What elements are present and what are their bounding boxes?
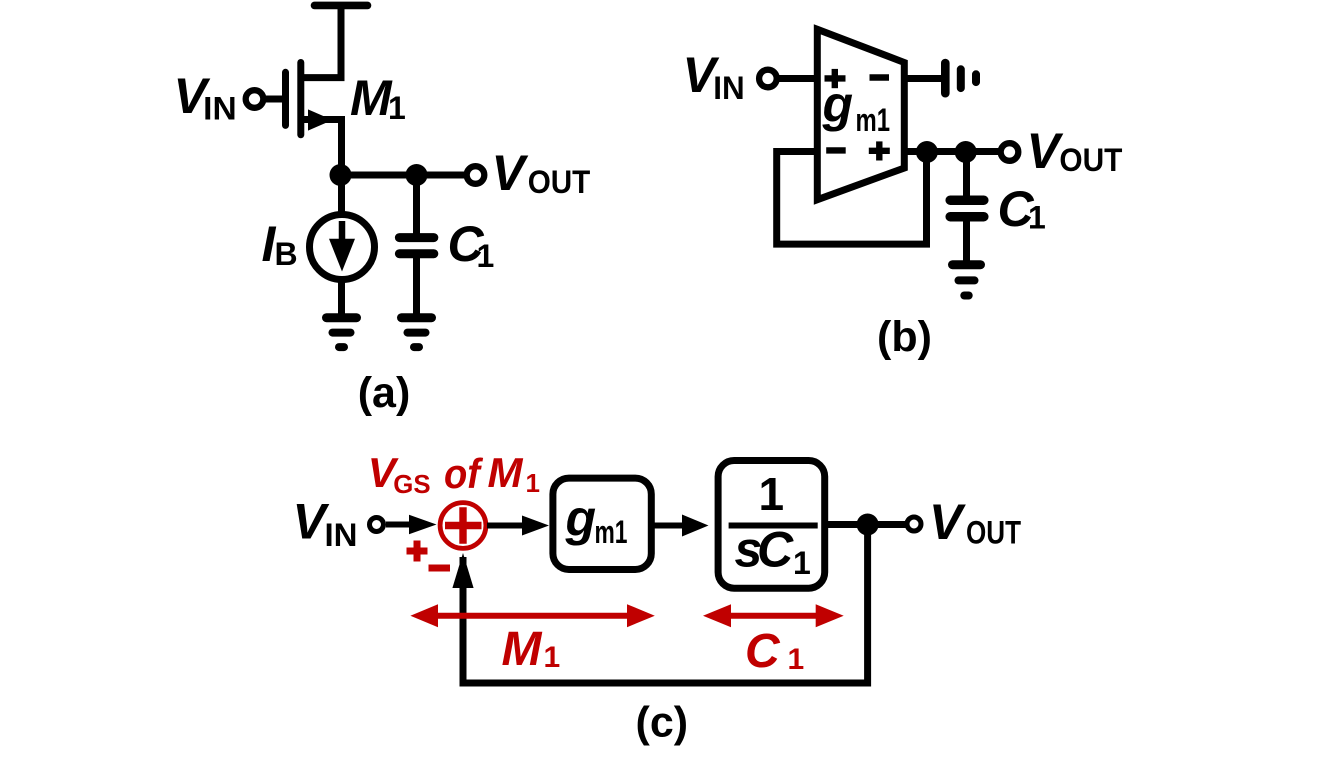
svg-text:M: M [350, 70, 393, 126]
wire node to cap (b) [963, 152, 970, 196]
node dot output gm [916, 141, 938, 163]
arrow gm1 to integrator [651, 523, 684, 529]
arrow summer to gm1 [487, 523, 524, 529]
node dot cap [406, 164, 428, 186]
svg-text:OUT: OUT [1059, 142, 1122, 178]
current source IB arrow [339, 221, 346, 241]
wire gm top output to supply [904, 75, 941, 82]
feedback wire loop (b) [777, 152, 927, 245]
terminal VOUT (a) [467, 166, 485, 184]
wire gm output row [904, 148, 1001, 155]
svg-text:1: 1 [544, 641, 561, 674]
svg-text:1: 1 [793, 545, 811, 581]
svg-text:1: 1 [788, 643, 805, 676]
wire node to capacitor C1 [413, 175, 420, 234]
supply symbol (b) [945, 63, 976, 93]
svg-text:IN: IN [325, 517, 358, 553]
svg-text:(a): (a) [358, 369, 411, 417]
svg-text:1: 1 [759, 468, 785, 520]
red minus sign [429, 565, 451, 572]
wire VIN to gm input [777, 75, 815, 82]
terminal VOUT (b) [1001, 143, 1019, 161]
svg-text:IN: IN [203, 91, 237, 127]
wire cap to ground (b) [963, 221, 970, 264]
transistor M1 source arrow [308, 109, 333, 130]
block 1/sC1 [718, 461, 825, 589]
minus bottom-left [826, 147, 846, 153]
svg-text:C: C [745, 625, 781, 678]
wire current source to ground [338, 278, 345, 317]
svg-text:1: 1 [388, 90, 406, 126]
svg-text:OUT: OUT [528, 164, 591, 200]
plus top-left input [825, 69, 846, 88]
VDD supply bar [315, 2, 368, 10]
svg-text:GS: GS [393, 469, 430, 499]
red plus sign [407, 541, 428, 562]
plus bottom-right [869, 141, 890, 160]
capacitor C1 (a) plates [399, 238, 433, 254]
node dot cap (b) [955, 141, 977, 163]
wire node to current source [338, 175, 345, 216]
svg-text:m1: m1 [856, 102, 891, 138]
svg-text:m1: m1 [595, 514, 628, 550]
transistor M1 gate bar [282, 72, 289, 125]
wire gate [262, 96, 282, 103]
svg-text:(c): (c) [636, 699, 689, 747]
ground below C1 (a) [402, 318, 432, 347]
minus top-right [870, 74, 890, 80]
wire capacitor to ground [413, 253, 420, 317]
svg-text:V: V [929, 494, 966, 550]
svg-text:M: M [488, 449, 524, 496]
svg-text:g: g [822, 76, 854, 132]
wire source to node [302, 120, 342, 177]
ground below IB [327, 318, 357, 347]
svg-text:1: 1 [526, 468, 540, 498]
svg-text:IN: IN [713, 70, 744, 106]
wire output node row [338, 172, 467, 179]
terminal VIN (c) [370, 518, 384, 532]
svg-text:C: C [757, 522, 794, 578]
svg-text:of: of [444, 450, 484, 497]
feedback arrowhead up [452, 553, 473, 588]
terminal VOUT (c) [907, 517, 921, 531]
current source IB circle [310, 215, 375, 280]
arrow VIN to summer [386, 522, 415, 528]
wire VDD to drain [302, 5, 341, 77]
ground (b) [953, 265, 981, 296]
red span arrow M1 [430, 613, 635, 619]
svg-text:M: M [502, 623, 543, 676]
wire integrator to VOUT [825, 521, 906, 528]
node dot (c) [857, 514, 879, 536]
terminal VIN (a) [246, 90, 264, 108]
transconductor gm1 trapezoid [817, 29, 904, 199]
summer node (red) [440, 503, 486, 549]
svg-text:g: g [565, 490, 597, 546]
feedback wire (c) [463, 525, 868, 684]
block gm1 [553, 478, 651, 569]
svg-text:1: 1 [477, 238, 495, 274]
svg-text:(b): (b) [877, 313, 932, 361]
terminal VIN (b) [759, 70, 777, 88]
svg-text:B: B [275, 236, 298, 272]
red span arrow C1 [723, 613, 824, 619]
capacitor C1 (b) plates [950, 200, 984, 217]
svg-text:1: 1 [1028, 200, 1046, 236]
svg-text:V: V [492, 145, 529, 201]
svg-text:OUT: OUT [966, 515, 1021, 551]
node dot source [330, 164, 352, 186]
svg-text:V: V [1027, 123, 1064, 179]
transistor M1 channel bar [297, 63, 304, 135]
